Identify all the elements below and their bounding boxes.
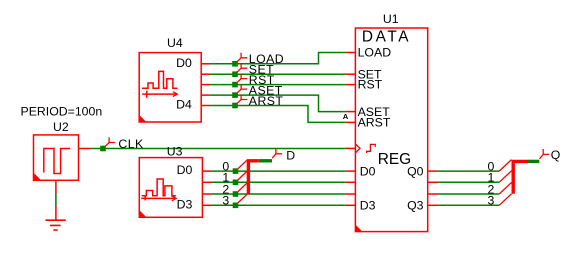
bus entry 1 left <box>238 172 247 180</box>
bus entry 1 right <box>499 171 511 183</box>
bus D terminal mark <box>259 159 272 162</box>
wire LOAD net <box>210 53 346 64</box>
wire D2 net <box>211 193 346 195</box>
svg-text:DATA: DATA <box>362 29 411 46</box>
svg-text:LOAD: LOAD <box>358 46 392 60</box>
wire Q2 net <box>438 193 499 195</box>
bus entry 0 right <box>499 160 511 172</box>
register U1 <box>346 12 438 232</box>
ground <box>45 207 65 231</box>
wire RST net <box>210 84 346 86</box>
wire CLK net <box>91 148 346 150</box>
svg-text:CLK: CLK <box>118 137 144 151</box>
wire D3 net <box>211 204 346 206</box>
svg-text:D0: D0 <box>360 164 376 178</box>
generator terminal RST <box>237 73 275 87</box>
svg-text:ARST: ARST <box>249 94 284 108</box>
svg-text:D3: D3 <box>360 199 376 213</box>
generator terminal CLK <box>105 137 144 151</box>
wire SET net <box>210 73 346 75</box>
pattern generator U3 <box>139 144 211 217</box>
pin D2 of U3 <box>202 193 211 195</box>
junction on CLK wire <box>100 146 106 152</box>
pin Q2 of U1 <box>428 193 438 195</box>
pin SET of U1 <box>346 73 356 75</box>
generator terminal D <box>272 148 295 162</box>
pin Q3 of U1 <box>428 204 438 206</box>
pin D0 of U1 <box>346 170 356 172</box>
pin Q1 of U1 <box>428 181 438 183</box>
rising edge symbol <box>367 144 376 153</box>
junction on RST wire <box>232 82 238 88</box>
wire ARST net <box>210 106 346 123</box>
pin LOAD of U1 <box>346 52 356 54</box>
bus entry 3 left <box>238 195 247 203</box>
bus Q terminal mark <box>527 160 539 163</box>
svg-text:A: A <box>343 112 349 121</box>
pin D2 of U4 <box>201 84 210 86</box>
pin D0 of U4 <box>201 63 210 65</box>
pin D3 of U4 <box>201 94 210 96</box>
svg-text:Q: Q <box>551 148 561 162</box>
svg-text:D0: D0 <box>176 56 192 70</box>
svg-text:D: D <box>286 149 295 163</box>
pin D1 of U4 <box>201 73 210 75</box>
pin ARST of U1 <box>346 121 356 123</box>
pin D3 of U1 <box>346 204 356 206</box>
svg-text:3: 3 <box>488 194 495 208</box>
clock generator U2 <box>21 105 103 194</box>
pin Q0 of U1 <box>428 170 438 172</box>
pattern generator U4 <box>139 36 210 122</box>
svg-text:RST: RST <box>358 78 383 92</box>
svg-text:U4: U4 <box>167 36 183 50</box>
junction on D3 wire <box>233 203 239 209</box>
svg-text:Q0: Q0 <box>407 164 424 178</box>
wire Q1 net <box>438 181 499 183</box>
generator terminal ARST <box>237 94 284 108</box>
svg-text:3: 3 <box>222 194 229 208</box>
svg-text:U3: U3 <box>167 144 183 158</box>
svg-text:ARST: ARST <box>358 116 391 130</box>
svg-text:U2: U2 <box>53 120 69 134</box>
generator terminal SET <box>237 63 274 77</box>
wire U2 to ground <box>55 194 57 207</box>
junction on D0 wire <box>233 168 239 174</box>
svg-text:REG: REG <box>378 151 411 168</box>
pin D2 of U1 <box>346 193 356 195</box>
junction on LOAD wire <box>232 61 238 67</box>
pin ASET of U1 <box>346 111 356 113</box>
bus Q vertical <box>513 161 527 193</box>
wire Q0 net <box>438 170 499 172</box>
pin RST of U1 <box>346 84 356 86</box>
wire Q3 net <box>438 204 499 206</box>
clock input chevron <box>356 144 360 152</box>
pin D3 of U3 <box>202 204 211 206</box>
pin D4 of U4 <box>201 105 210 107</box>
bus D vertical <box>248 161 258 195</box>
svg-text:PERIOD=100n: PERIOD=100n <box>21 105 103 119</box>
wire D0 net <box>211 170 346 172</box>
bus entry 0 left <box>238 160 247 168</box>
bus entry 3 right <box>499 194 511 206</box>
wire ASET net <box>210 95 346 112</box>
generator terminal ASET <box>237 83 283 97</box>
pin D0 of U3 <box>202 170 211 172</box>
wire D1 net <box>211 181 346 183</box>
svg-text:Q3: Q3 <box>407 199 424 213</box>
junction on SET wire <box>232 71 238 77</box>
svg-text:D4: D4 <box>176 98 192 112</box>
pin D1 of U1 <box>346 181 356 183</box>
generator terminal Q <box>540 148 561 162</box>
junction on D2 wire <box>233 191 239 197</box>
bus entry 2 right <box>499 183 511 195</box>
generator terminal LOAD <box>237 52 284 66</box>
svg-text:U1: U1 <box>383 12 399 26</box>
pin D1 of U3 <box>202 181 211 183</box>
junction on ARST wire <box>232 103 238 109</box>
junction on ASET wire <box>232 92 238 98</box>
svg-text:D0: D0 <box>177 163 193 177</box>
junction on D1 wire <box>233 180 239 186</box>
pin CLK of U1 <box>346 147 356 149</box>
svg-text:D3: D3 <box>177 198 193 212</box>
bus entry 2 left <box>238 183 247 191</box>
